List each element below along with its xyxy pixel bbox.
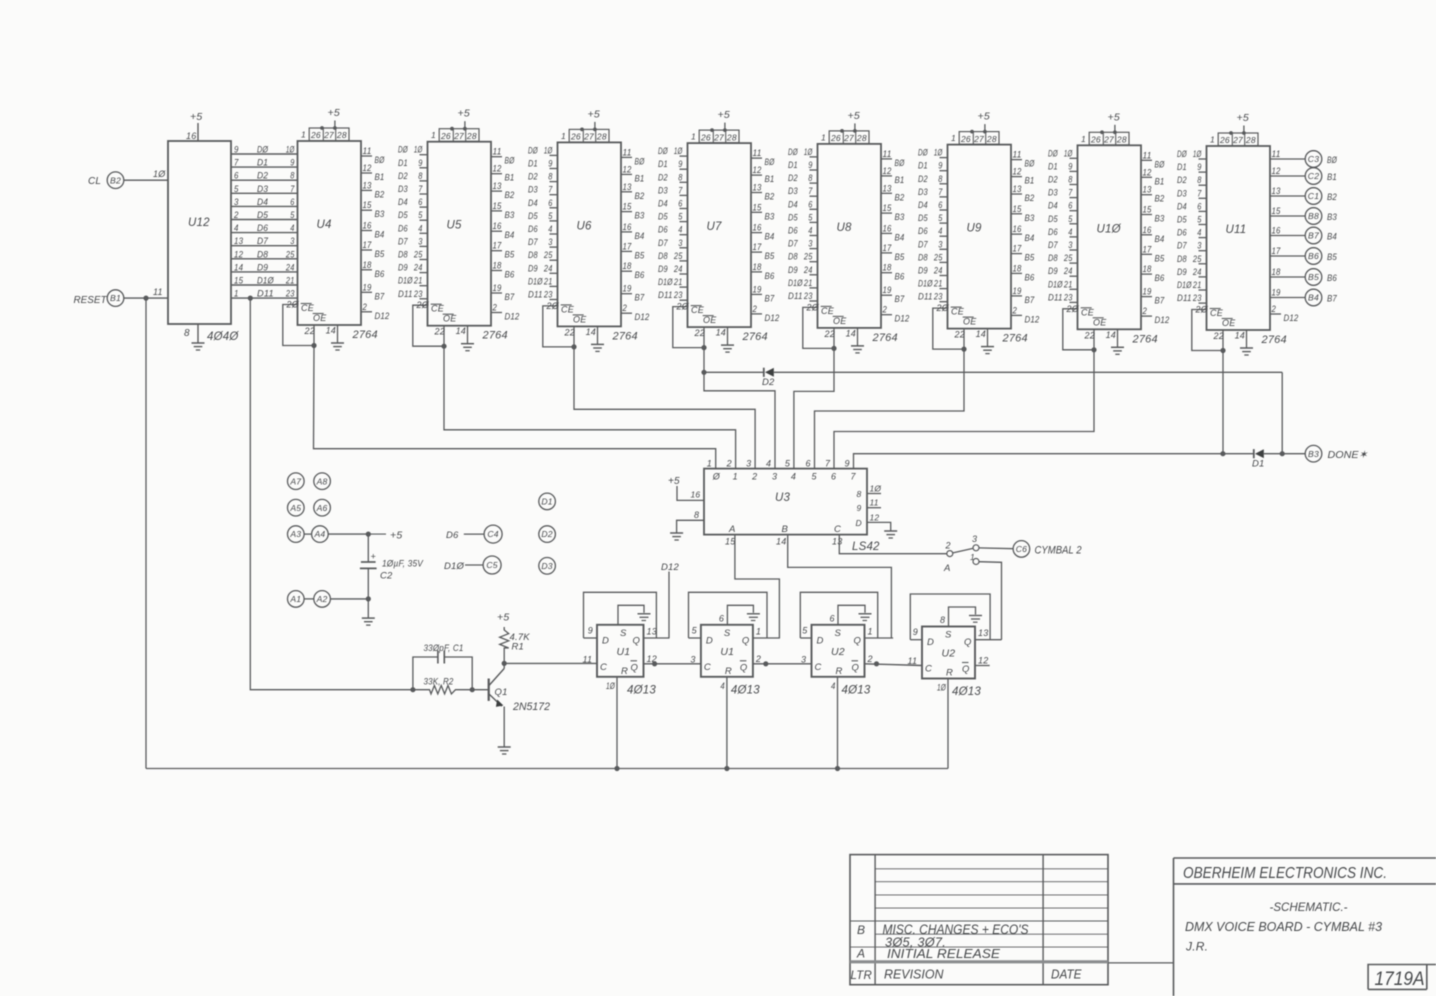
svg-text:12: 12 [978,656,988,666]
svg-text:7: 7 [938,187,943,197]
svg-text:B5: B5 [765,251,775,262]
svg-text:B1: B1 [505,173,515,184]
svg-text:13: 13 [647,627,657,637]
U11 address pin 6 D4 [1199,210,1207,212]
U8 Vpp pins box 26 27 28 [829,131,869,144]
U1Ø address pin 23 D11 [1070,301,1078,303]
U7 address pin 3 D7 [680,247,688,249]
junction node D11 [248,296,253,301]
svg-text:D6: D6 [528,224,538,234]
U2 R pin 4 to reset rail [837,677,839,769]
svg-text:3: 3 [548,237,552,247]
U3 pin 12 input D to ground [867,522,891,531]
svg-text:+5: +5 [458,108,470,120]
U11 pin 11 output BØ [1270,158,1305,160]
svg-text:2: 2 [726,459,732,469]
svg-text:D8: D8 [788,252,798,262]
svg-text:A5: A5 [289,503,301,513]
U6 address pin 21 D1Ø [550,285,558,287]
svg-text:A6: A6 [316,503,328,513]
U9 address pin 23 D11 [940,301,948,303]
svg-text:D2: D2 [541,529,552,539]
svg-text:8: 8 [548,172,552,182]
U1Ø pin 16 output B4 [1141,234,1152,236]
U4 pin 20 CE loop [283,305,314,346]
U7 address pin 23 D11 [680,299,688,301]
svg-text:1Ø: 1Ø [286,145,295,155]
connector B4 [1305,289,1322,306]
connector C3 [1305,151,1322,168]
U8 pin 22 wire [833,328,835,349]
U6 pin 18 output B6 [621,270,632,272]
svg-text:2764: 2764 [352,329,378,341]
svg-text:25: 25 [1063,253,1073,263]
svg-text:D11: D11 [398,289,413,299]
svg-text:2Ø: 2Ø [286,300,300,310]
svg-text:3: 3 [1197,241,1201,251]
U11 pin 18 output B6 [1270,276,1305,278]
junction after U1 Qbar [652,661,657,666]
svg-text:D1: D1 [788,160,798,170]
U7 Vpp pins box 26 27 28 [699,130,739,143]
wire CL to U12 pin 10 [124,179,168,181]
svg-text:6: 6 [678,199,682,209]
svg-text:16: 16 [883,223,892,233]
svg-text:B3: B3 [635,211,645,222]
svg-text:D7: D7 [398,236,408,246]
U1 feedback loop Q to D [584,592,657,638]
svg-text:26: 26 [440,131,451,141]
U1Ø pin 17 output B5 [1141,253,1152,255]
svg-text:+5: +5 [718,109,730,121]
wire U11 CE down to DONE line [1222,351,1224,454]
U5 pin 22 wire [443,326,445,347]
svg-text:3: 3 [418,236,422,246]
U2 S to ground [949,607,976,627]
svg-text:D5: D5 [1177,215,1187,225]
svg-text:B4: B4 [1025,233,1035,244]
wire U12 to U4 D6 [231,232,298,234]
svg-text:2: 2 [867,654,873,664]
U6 pin 13 output B2 [621,191,632,193]
U7 address pin 1Ø DØ [680,155,688,157]
svg-text:1Ø: 1Ø [937,683,947,693]
svg-text:1Ø: 1Ø [414,145,423,155]
svg-text:A: A [728,524,736,535]
U8 address pin 7 D3 [810,195,818,197]
decoder U3 LS42 [704,469,867,535]
U6 pin 17 output B5 [621,250,632,252]
svg-text:S: S [835,628,842,639]
svg-text:D6: D6 [398,223,408,233]
U7 address pin 25 D8 [680,260,688,262]
wire A3 to A4 [304,533,312,535]
svg-text:R: R [836,666,843,677]
svg-text:15: 15 [1143,205,1153,215]
svg-text:19: 19 [363,282,372,292]
svg-text:1: 1 [733,472,738,482]
U5 pin 19 output B7 [491,292,502,294]
svg-text:1: 1 [970,552,975,562]
U9 address pin 9 D1 [940,170,948,172]
svg-text:CL: CL [88,176,101,187]
U7 address pin 9 D1 [680,168,688,170]
svg-text:2: 2 [752,304,757,314]
svg-text:OE: OE [703,315,717,325]
svg-text:1: 1 [1210,135,1215,145]
svg-text:11: 11 [1143,150,1152,160]
svg-text:Q: Q [631,662,639,673]
svg-text:4: 4 [1197,228,1201,238]
svg-text:D3: D3 [541,561,552,571]
svg-text:1: 1 [431,130,436,140]
svg-text:7: 7 [1068,188,1073,198]
U4 pin 17 output B5 [361,249,372,251]
svg-text:24: 24 [543,263,552,273]
svg-text:C: C [704,662,711,673]
svg-text:15: 15 [623,202,633,212]
svg-text:B7: B7 [375,291,385,302]
U5 Vpp pins box 26 27 28 [439,129,479,142]
svg-text:D2: D2 [762,377,775,388]
U11 address pin 7 D3 [1199,197,1207,199]
svg-text:21: 21 [543,276,552,286]
wire U12 to U4 D8 [231,258,298,260]
U6 pin 14 ground [597,326,599,344]
svg-text:D11: D11 [257,289,274,300]
svg-text:13: 13 [1143,185,1152,195]
svg-text:B5: B5 [1155,253,1165,264]
U3 pin 11 output 9 [867,507,881,509]
U9 address pin 4 D6 [940,235,948,237]
wire U12 to U4 D4 [231,205,298,207]
svg-text:2: 2 [1012,305,1017,315]
svg-text:17: 17 [883,243,893,253]
svg-text:U2: U2 [942,648,956,660]
U11 pin 17 output B5 [1270,255,1305,257]
svg-text:3: 3 [290,236,294,246]
svg-text:2764: 2764 [872,332,898,344]
U1 D input pin 5 [689,637,701,639]
U11 pin 14 ground [1246,330,1248,348]
U2 feedback loop Q to D [910,594,990,640]
wire switch terminal 1 to U2 Q [979,562,1002,640]
svg-text:B6: B6 [765,271,775,282]
svg-text:DMX VOICE BOARD - CYMBAL #3: DMX VOICE BOARD - CYMBAL #3 [1185,919,1383,934]
svg-text:26: 26 [570,132,581,142]
U9 address pin 7 D3 [940,196,948,198]
U1Ø address pin 6 D4 [1070,210,1078,212]
U7 address pin 7 D3 [680,194,688,196]
connector B7 [1305,227,1322,244]
wire RESET to U12 pin 11 [124,297,168,299]
EPROM U7 2764 [688,143,752,327]
svg-text:28: 28 [1245,135,1256,145]
svg-text:B4: B4 [505,230,515,241]
svg-text:D5: D5 [788,212,798,222]
svg-text:4Ø13: 4Ø13 [627,684,656,696]
U1Ø address pin 8 D2 [1070,184,1078,186]
svg-text:7: 7 [234,158,239,168]
U7 pin 20 CE loop [673,307,704,348]
svg-text:DØ: DØ [1048,148,1058,158]
svg-text:4: 4 [766,459,771,469]
svg-text:14: 14 [456,326,466,336]
svg-text:U6: U6 [577,220,593,232]
U9 address pin 8 D2 [940,183,948,185]
svg-text:13: 13 [978,628,988,638]
svg-text:B5: B5 [1327,252,1337,263]
svg-text:D12: D12 [505,312,520,323]
svg-text:28: 28 [596,132,607,142]
svg-text:D2: D2 [528,172,538,182]
U9 pin 18 output B6 [1011,272,1022,274]
svg-text:D8: D8 [1048,253,1058,263]
svg-text:D5: D5 [658,212,668,222]
svg-text:REVISION: REVISION [884,967,944,982]
U6 address pin 1Ø DØ [550,154,558,156]
svg-text:R: R [621,666,628,677]
svg-text:5: 5 [785,459,791,469]
svg-text:2: 2 [882,305,887,315]
svg-text:7: 7 [678,185,683,195]
svg-text:16: 16 [623,222,632,232]
svg-text:U12: U12 [188,217,210,229]
svg-text:D6: D6 [658,225,668,235]
svg-text:D5: D5 [257,210,269,221]
svg-text:21: 21 [1063,279,1072,289]
counter U12 4040 [168,141,231,324]
U4 pin 18 output B6 [361,269,372,271]
svg-text:9: 9 [913,627,918,637]
svg-text:11: 11 [883,149,892,159]
svg-text:25: 25 [803,252,813,262]
U11 pin 15 output B3 [1270,215,1305,217]
svg-text:5: 5 [1068,214,1073,224]
svg-text:26: 26 [1219,135,1230,145]
svg-text:A7: A7 [289,476,302,486]
svg-text:2: 2 [751,472,757,482]
+5 power to U1Ø [1114,125,1116,133]
svg-text:BØ: BØ [375,155,385,166]
svg-text:B4: B4 [1155,234,1165,245]
U8 pin 22 junction [831,346,836,351]
U6 address pin 6 D4 [550,207,558,209]
svg-text:OE: OE [833,316,847,326]
svg-text:18: 18 [1272,267,1281,277]
junction after second U1 Qbar [763,661,768,666]
svg-text:D11: D11 [658,290,673,300]
svg-text:D2: D2 [1177,175,1187,185]
U7 address pin 24 D9 [680,273,688,275]
U9 pin 2 output D12 [1011,314,1022,316]
reset rail wire [146,768,948,770]
svg-text:D5: D5 [1048,214,1058,224]
U2 D input pin 5 [800,637,811,639]
U5 address pin 21 D1Ø [420,285,428,287]
svg-text:D1Ø: D1Ø [788,278,803,288]
svg-text:D7: D7 [658,238,668,248]
svg-text:DØ: DØ [398,145,408,155]
U1Ø pin 13 output B2 [1141,194,1152,196]
svg-text:19: 19 [1143,287,1152,297]
svg-text:24: 24 [413,263,422,273]
svg-text:B6: B6 [895,272,905,283]
svg-text:9: 9 [418,158,422,168]
svg-text:23: 23 [285,289,294,299]
U5 address pin 3 D7 [420,245,428,247]
svg-text:D8: D8 [398,250,408,260]
svg-text:22: 22 [434,327,445,337]
+5 power to U11 [1243,126,1245,134]
U5 pin 12 output B1 [491,173,502,175]
svg-text:8: 8 [290,171,294,181]
svg-text:CE: CE [821,306,835,316]
svg-text:17: 17 [1272,246,1282,256]
revision table thick divider [850,960,1108,963]
U4 Vpp pins box 26 27 28 [309,128,349,141]
svg-text:U5: U5 [447,220,463,232]
U9 pin 17 output B5 [1011,253,1022,255]
svg-text:4: 4 [938,226,942,236]
svg-text:D5: D5 [918,213,928,223]
svg-text:4: 4 [678,225,682,235]
svg-text:6: 6 [830,613,835,623]
U9 pin 22 wire [963,329,965,350]
svg-text:B4: B4 [635,231,645,242]
svg-text:A3: A3 [289,529,301,539]
flip-flop U2 4013 [922,627,975,679]
U1Ø Vpp pins box 26 27 28 [1089,132,1129,145]
svg-text:7: 7 [825,459,831,469]
svg-text:D9: D9 [528,263,538,273]
svg-text:D2: D2 [398,171,408,181]
svg-text:27: 27 [583,132,594,142]
U2 R pin 1Ø to reset rail [947,679,949,769]
Q1 emitter to ground [503,707,505,748]
connector A8 [314,473,331,490]
svg-text:24: 24 [803,265,812,275]
svg-text:Q: Q [852,662,860,673]
svg-text:+5: +5 [497,612,509,624]
svg-text:22: 22 [694,328,705,338]
svg-text:D2: D2 [788,173,798,183]
U11 address pin 5 D5 [1199,224,1207,226]
svg-text:D2: D2 [658,172,668,182]
svg-text:9: 9 [845,459,850,469]
svg-text:11: 11 [153,287,163,297]
svg-text:D9: D9 [918,266,928,276]
svg-text:26: 26 [310,130,321,140]
svg-text:8: 8 [418,171,422,181]
svg-text:B5: B5 [375,249,385,260]
svg-text:3: 3 [801,654,806,664]
switch terminal 3 [973,545,979,551]
svg-text:B2: B2 [1155,194,1165,205]
connector A4 [312,526,329,543]
svg-text:OE: OE [963,317,977,327]
svg-text:D5: D5 [398,210,408,220]
junction +5 node [366,532,371,537]
svg-text:B2: B2 [110,175,121,185]
+5 power to U7 [724,123,726,131]
U11 Vpp pins box 26 27 28 [1218,133,1258,146]
svg-text:17: 17 [623,241,633,251]
svg-text:B3: B3 [1327,212,1337,223]
svg-text:26: 26 [700,132,711,142]
svg-text:6: 6 [719,613,724,623]
svg-text:1719A: 1719A [1375,968,1425,990]
svg-text:13: 13 [1013,184,1022,194]
svg-text:7: 7 [290,184,295,194]
svg-text:8: 8 [694,510,699,520]
U4 pin 14 ground [337,325,339,343]
svg-text:24: 24 [1192,267,1201,277]
svg-text:B1: B1 [765,174,775,185]
svg-text:12: 12 [1013,167,1022,177]
svg-text:21: 21 [673,277,682,287]
U1Ø pin 15 output B3 [1141,214,1152,216]
svg-text:3: 3 [772,472,777,482]
U6 address pin 24 D9 [550,272,558,274]
svg-text:13: 13 [493,181,502,191]
svg-text:5: 5 [418,210,423,220]
svg-text:15: 15 [363,200,373,210]
wire U10 CE to U3 pin 7 [834,350,1094,469]
svg-text:16: 16 [363,221,372,231]
svg-text:4: 4 [1068,227,1072,237]
svg-text:D1: D1 [398,158,408,168]
svg-text:B3: B3 [1155,214,1165,225]
svg-text:9: 9 [678,159,682,169]
svg-text:B2: B2 [895,192,905,203]
svg-text:B6: B6 [1327,273,1337,284]
svg-text:19: 19 [493,283,502,293]
svg-text:19: 19 [753,284,762,294]
svg-text:D1: D1 [1048,161,1058,171]
U1 D input pin 9 [584,637,598,639]
svg-text:+5: +5 [1108,111,1120,123]
svg-text:B2: B2 [1025,193,1035,204]
svg-text:DØ: DØ [788,147,798,157]
svg-text:1: 1 [1081,134,1086,144]
svg-text:28: 28 [726,132,737,142]
svg-text:+: + [371,552,376,562]
U9 address pin 25 D8 [940,261,948,263]
svg-text:R1: R1 [512,642,525,653]
svg-text:1: 1 [821,132,826,142]
U5 pin 15 output B3 [491,210,502,212]
svg-text:B8: B8 [1308,211,1319,221]
U6 address pin 25 D8 [550,259,558,261]
svg-text:11: 11 [1272,149,1281,159]
connector C1 [1305,188,1322,205]
svg-text:1: 1 [868,627,873,637]
svg-text:CE: CE [691,305,705,315]
svg-text:S: S [724,628,731,639]
svg-text:22: 22 [304,326,315,336]
svg-text:C: C [925,664,932,675]
U5 pin 11 output BØ [491,156,502,158]
U8 pin 13 output B2 [881,192,892,194]
svg-text:5: 5 [802,626,808,636]
U1 R pin 4 to reset rail [726,677,728,769]
svg-text:D11: D11 [788,291,803,301]
svg-text:19: 19 [883,285,892,295]
svg-text:U3: U3 [775,492,791,504]
svg-text:B6: B6 [1308,251,1319,261]
U5 pin 13 output B2 [491,190,502,192]
